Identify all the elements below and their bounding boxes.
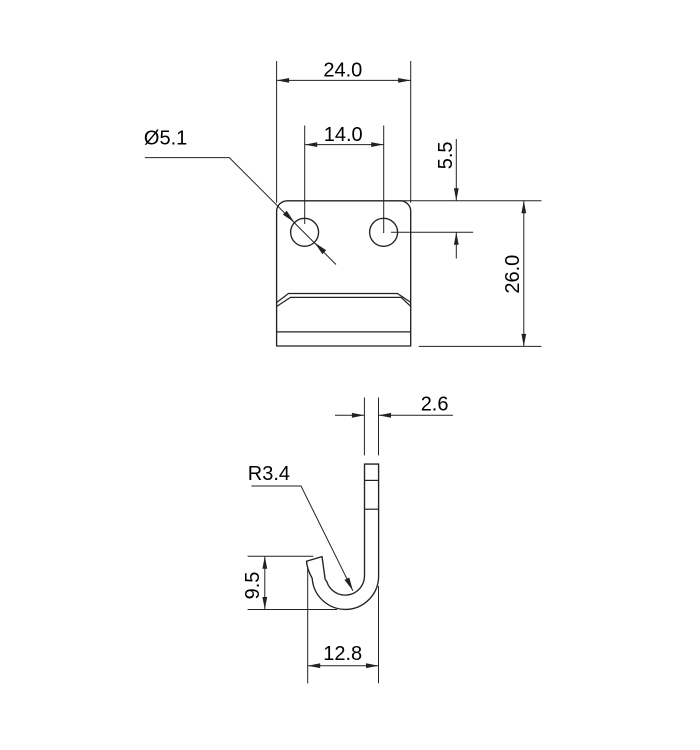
svg-text:24.0: 24.0 (323, 59, 362, 81)
svg-text:5.5: 5.5 (435, 141, 457, 169)
svg-text:14.0: 14.0 (324, 124, 363, 146)
svg-text:R3.4: R3.4 (248, 463, 290, 485)
svg-text:9.5: 9.5 (242, 572, 264, 600)
svg-text:Ø5.1: Ø5.1 (144, 127, 187, 149)
svg-text:12.8: 12.8 (323, 643, 362, 665)
svg-text:2.6: 2.6 (421, 393, 449, 415)
svg-text:26.0: 26.0 (502, 255, 524, 294)
